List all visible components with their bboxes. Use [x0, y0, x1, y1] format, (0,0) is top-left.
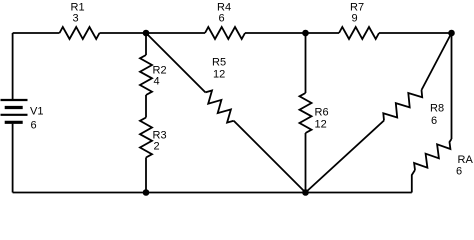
wire node D to R8 [422, 33, 452, 90]
svg-text:6: 6 [456, 166, 462, 178]
svg-text:RA: RA [458, 154, 474, 166]
svg-text:V1: V1 [30, 106, 43, 118]
svg-text:R8: R8 [430, 103, 444, 115]
wire node B to R5 [146, 33, 205, 92]
wire node B to R2 [145, 33, 147, 55]
svg-text:6: 6 [31, 120, 37, 132]
wire R2 to R3 [145, 95, 147, 118]
wire node D down to RA [451, 33, 453, 139]
resistor R1 value 3 [60, 2, 100, 40]
wire top segment R1 to node B [100, 32, 147, 34]
svg-text:3: 3 [73, 13, 79, 25]
svg-text:4: 4 [154, 76, 160, 88]
node C junction dot [302, 30, 309, 37]
resistor R7 value 9 [339, 2, 379, 40]
node G junction dot [302, 189, 309, 196]
wire top segment R4 to node C [245, 32, 306, 34]
wire node C to R6 [305, 33, 307, 93]
svg-text:R6: R6 [315, 107, 329, 119]
battery V1 value 6 [1, 100, 44, 132]
wire R3 to node F [145, 158, 147, 193]
resistor R2 value 4 [140, 55, 167, 95]
svg-text:6: 6 [431, 115, 437, 127]
wire top segment node B to R4 [146, 32, 205, 34]
wire bottom rail [13, 192, 412, 194]
resistor RA value 6 [414, 139, 473, 178]
wire top segment node C to R7 [306, 32, 340, 34]
svg-text:12: 12 [315, 119, 327, 131]
wire R8 to node G [306, 121, 385, 193]
wire left segment bottom lead of V1 [12, 124, 14, 193]
resistor R8 value 6 [383, 90, 444, 127]
wire R6 to node G [305, 133, 307, 193]
svg-text:2: 2 [154, 141, 160, 153]
wire left segment top lead of V1 [12, 33, 14, 99]
wire RA to bottom rail [412, 170, 415, 193]
svg-text:6: 6 [219, 13, 225, 25]
node D junction dot [448, 30, 455, 37]
svg-text:R5: R5 [212, 57, 226, 69]
wire top segment battery to R1 [13, 32, 60, 34]
resistor R4 value 6 [205, 2, 245, 40]
resistor R5 value 12 [205, 57, 233, 123]
wire top segment R7 to node D [379, 32, 452, 34]
resistor R6 value 12 [300, 93, 329, 133]
wire R5 to node G [234, 121, 306, 193]
svg-text:12: 12 [213, 69, 225, 81]
node F junction dot [143, 189, 150, 196]
resistor R3 value 2 [140, 118, 167, 158]
node B junction dot [143, 30, 150, 37]
svg-text:9: 9 [352, 13, 358, 25]
